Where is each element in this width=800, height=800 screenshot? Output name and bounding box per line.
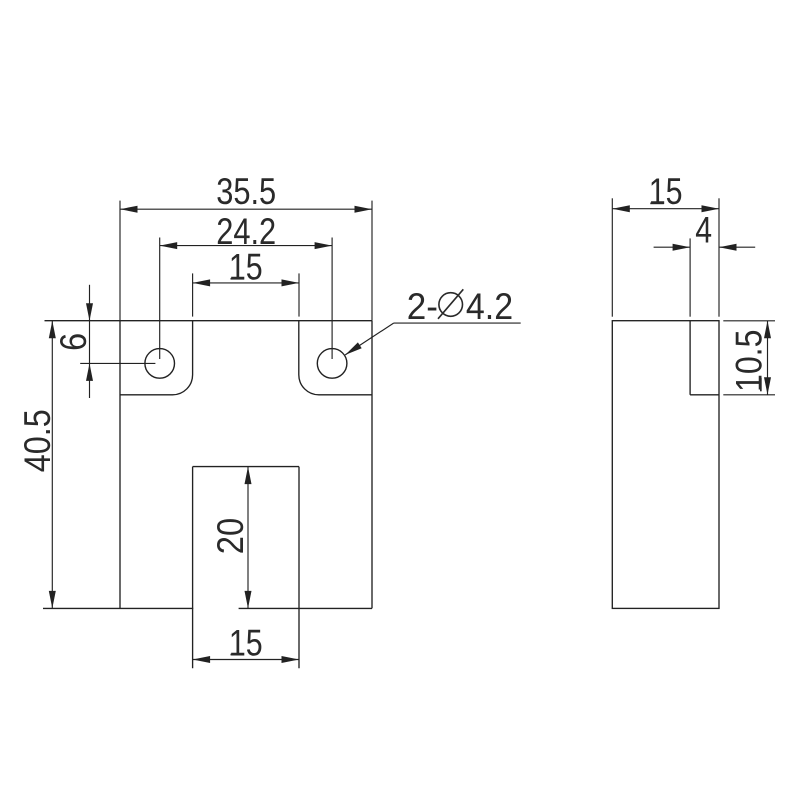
dim 24.2 line <box>160 245 332 247</box>
notch left wall <box>192 467 194 669</box>
arrow leader <box>345 342 362 355</box>
svg-text:6: 6 <box>53 333 94 351</box>
arrow 24.2 right <box>315 242 333 249</box>
step edge left ear <box>120 321 193 395</box>
dim 15 top line <box>193 282 299 284</box>
dim 15 bottom line <box>193 659 299 661</box>
arrow 24.2 left <box>160 242 178 249</box>
hole right <box>317 349 347 379</box>
dim 15 top extension left <box>192 273 194 316</box>
hole right centre extension up <box>331 238 333 360</box>
arrow 4 right (points left) <box>719 244 737 251</box>
svg-text:10.5: 10.5 <box>729 330 770 392</box>
dim 10.5 top extension <box>723 320 775 322</box>
foot serif of digit 1 in top 15 label <box>231 278 245 280</box>
front view right edge <box>371 321 373 609</box>
arrow 40.5 top (up) <box>49 321 56 339</box>
arrow 35.5 right <box>355 206 373 213</box>
dim 35.5 extension right <box>371 201 373 321</box>
arrow 15 bottom right <box>282 656 300 663</box>
foot serif of digit 1 in side 15 label <box>650 203 664 205</box>
dim 4 line left tail <box>654 246 691 248</box>
leader line diagonal <box>345 323 393 355</box>
foot serif of digit 1 in bottom 15 label <box>231 654 245 656</box>
arrow 10.5 bottom (down) <box>764 377 771 395</box>
arrow 15 top left <box>193 279 211 286</box>
notch right wall <box>298 467 300 669</box>
notch top edge <box>193 466 299 468</box>
hole left <box>145 349 175 379</box>
front view bottom edge right segment <box>239 607 372 609</box>
dim 10.5 bottom extension <box>723 394 775 396</box>
svg-text:4.2: 4.2 <box>466 286 513 327</box>
svg-text:2-: 2- <box>407 286 438 327</box>
foot serif of digit 1 in 10.5 label <box>760 378 762 392</box>
front view bottom edge left segment <box>43 607 193 609</box>
arrow 6 upper (down) <box>86 303 93 321</box>
svg-text:15: 15 <box>649 171 683 212</box>
arrow 15 side left <box>612 205 630 212</box>
side view step vertical edge <box>689 321 691 395</box>
dim 20 line <box>247 467 249 609</box>
arrow 20 bottom (down) <box>245 591 252 609</box>
dim 15 side line <box>612 208 719 210</box>
dim 15 side extension right <box>718 198 720 316</box>
arrow 15 bottom left <box>193 656 211 663</box>
front view top edge <box>45 320 373 322</box>
svg-text:15: 15 <box>229 622 263 663</box>
arrow 40.5 bottom (down) <box>49 591 56 609</box>
dim 35.5 line <box>120 208 372 210</box>
dim 15 top extension right <box>298 273 300 316</box>
svg-text:15: 15 <box>229 247 263 288</box>
dim 15 side extension left <box>611 198 613 316</box>
front view left edge <box>119 321 121 609</box>
svg-text:20: 20 <box>210 518 251 554</box>
svg-text:4: 4 <box>695 209 712 250</box>
step edge right ear <box>299 321 372 395</box>
dim 4 extension line <box>689 238 691 316</box>
side view step floor edge <box>690 394 719 396</box>
hole centre horizontal extension <box>80 362 155 364</box>
svg-text:40.5: 40.5 <box>17 409 58 472</box>
arrow 20 top (up) <box>245 467 252 485</box>
diameter symbol of hole callout <box>438 289 463 319</box>
dim 10.5 line <box>767 321 769 395</box>
dim 40.5 line <box>51 321 53 609</box>
dim 4 line right tail <box>719 246 755 248</box>
arrow 15 top right <box>282 279 300 286</box>
dim 35.5 extension left (above plate) <box>119 201 121 321</box>
side view outline <box>612 321 719 609</box>
arrow 15 side right <box>702 205 720 212</box>
arrow 35.5 left <box>120 206 138 213</box>
dim 6 line <box>89 285 91 398</box>
arrow 10.5 top (up) <box>764 321 771 339</box>
arrow 4 left (points right) <box>673 244 691 251</box>
leader underline <box>394 322 521 324</box>
svg-text:35.5: 35.5 <box>216 171 276 212</box>
hole left centre extension up <box>159 238 161 360</box>
arrow 6 lower (up) <box>86 363 93 381</box>
